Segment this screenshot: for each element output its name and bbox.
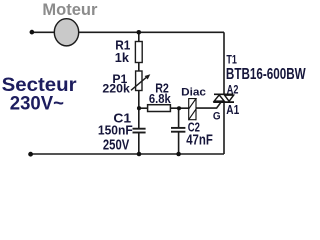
svg-text:A2: A2 [227, 83, 239, 97]
svg-text:BTB16-600BW: BTB16-600BW [226, 64, 307, 82]
svg-text:250V: 250V [103, 136, 130, 153]
svg-text:220k: 220k [102, 82, 130, 96]
svg-text:G: G [213, 110, 221, 123]
svg-text:Moteur: Moteur [42, 1, 98, 19]
svg-text:6.8k: 6.8k [149, 92, 171, 107]
svg-text:Diac: Diac [181, 87, 206, 99]
svg-text:230V~: 230V~ [10, 92, 64, 113]
svg-text:47nF: 47nF [186, 131, 213, 148]
svg-text:1k: 1k [115, 50, 130, 65]
svg-text:A1: A1 [226, 104, 239, 117]
